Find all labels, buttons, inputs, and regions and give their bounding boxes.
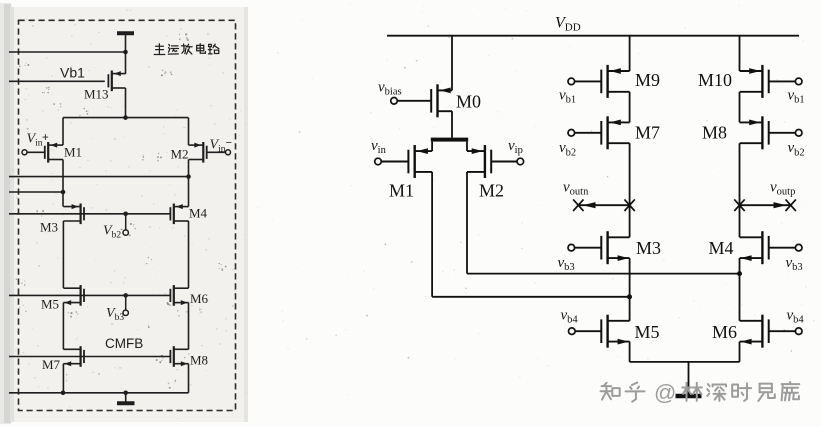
svg-text:M5: M5 [41,297,59,312]
svg-text:CMFB: CMFB [105,336,143,351]
svg-text:M13: M13 [84,87,109,102]
svg-text:M2: M2 [479,181,504,201]
svg-text:M2: M2 [171,147,189,162]
svg-text:M1: M1 [389,181,414,201]
svg-text:M7: M7 [42,357,61,372]
svg-text:M6: M6 [190,291,209,306]
svg-text:M4: M4 [189,206,208,221]
svg-text:−: − [226,137,232,149]
svg-text:M5: M5 [635,322,660,342]
svg-text:M7: M7 [635,123,660,143]
svg-text:Vb1: Vb1 [60,65,85,81]
svg-text:M1: M1 [64,145,82,160]
svg-text:M6: M6 [712,322,737,342]
svg-text:M3: M3 [40,220,58,235]
svg-text:@: @ [654,380,676,405]
svg-text:M8: M8 [190,353,208,368]
svg-text:M10: M10 [698,70,732,90]
svg-text:M4: M4 [709,238,734,258]
svg-text:+: + [42,132,49,144]
svg-text:M0: M0 [456,92,481,112]
svg-text:M3: M3 [636,238,661,258]
svg-text:M8: M8 [702,123,727,143]
svg-text:M9: M9 [635,70,660,90]
